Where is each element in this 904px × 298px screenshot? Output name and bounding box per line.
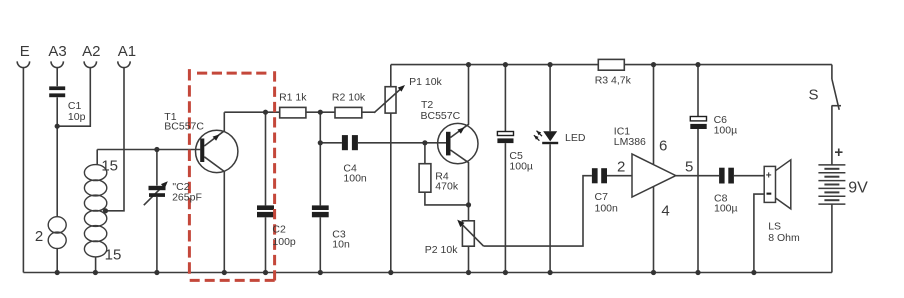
- svg-text:15: 15: [105, 247, 122, 264]
- svg-text:A1: A1: [118, 43, 136, 60]
- svg-text:100p: 100p: [272, 236, 296, 248]
- svg-text:9V: 9V: [848, 180, 868, 197]
- svg-text:2: 2: [35, 228, 43, 245]
- svg-text:LED: LED: [565, 132, 586, 144]
- svg-text:6: 6: [659, 137, 667, 154]
- svg-text:+: +: [834, 144, 843, 161]
- svg-text:100µ: 100µ: [714, 124, 738, 136]
- svg-text:A2: A2: [82, 43, 100, 60]
- svg-text:265pF: 265pF: [172, 191, 202, 203]
- svg-text:100n: 100n: [595, 202, 619, 214]
- svg-text:10p: 10p: [68, 111, 86, 123]
- svg-text:100n: 100n: [343, 172, 367, 184]
- svg-text:100µ: 100µ: [714, 203, 738, 215]
- svg-text:BC557C: BC557C: [421, 110, 461, 122]
- svg-text:A3: A3: [48, 43, 66, 60]
- svg-text:5: 5: [685, 159, 693, 176]
- svg-text:BC557C: BC557C: [164, 120, 204, 132]
- svg-text:C1: C1: [68, 100, 82, 112]
- svg-text:470k: 470k: [435, 181, 459, 193]
- svg-text:C2: C2: [272, 224, 286, 236]
- svg-text:P2 10k: P2 10k: [425, 244, 458, 256]
- svg-text:2: 2: [617, 159, 625, 176]
- svg-text:10n: 10n: [332, 239, 350, 251]
- svg-text:+: +: [766, 171, 772, 182]
- svg-text:8 Ohm: 8 Ohm: [768, 232, 800, 244]
- svg-text:P1 10k: P1 10k: [409, 76, 442, 88]
- svg-text:E: E: [20, 43, 30, 60]
- svg-text:R1 1k: R1 1k: [279, 91, 307, 103]
- svg-text:LM386: LM386: [614, 136, 646, 148]
- svg-text:S: S: [808, 87, 818, 104]
- svg-text:100µ: 100µ: [509, 160, 533, 172]
- svg-text:LS: LS: [768, 221, 781, 233]
- svg-text:R3 4,7k: R3 4,7k: [595, 75, 632, 87]
- svg-text:4: 4: [661, 203, 669, 220]
- svg-text:R2 10k: R2 10k: [332, 91, 366, 103]
- svg-text:15: 15: [101, 158, 118, 175]
